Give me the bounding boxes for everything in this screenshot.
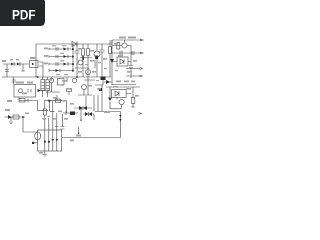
svg-text:PDF: PDF (12, 6, 36, 22)
